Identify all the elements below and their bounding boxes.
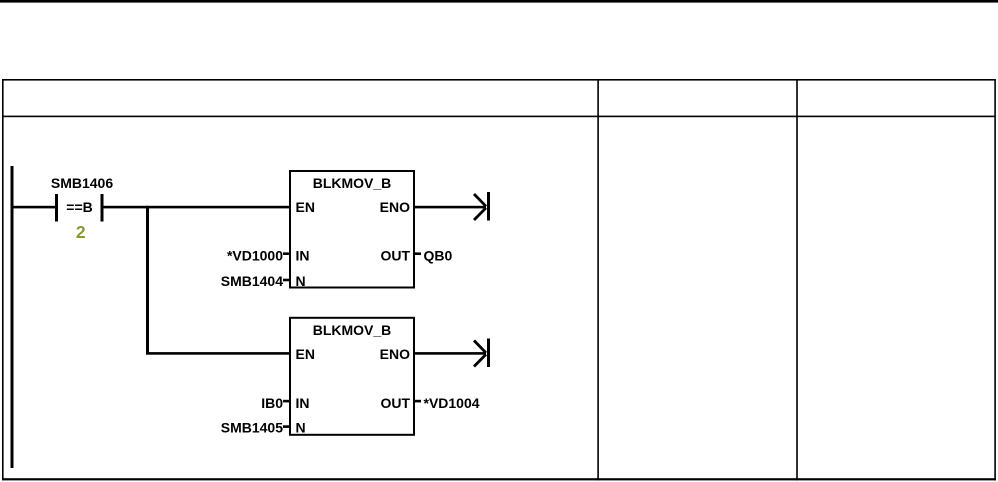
- table left border: [2, 79, 4, 480]
- svg-text:SMB1405: SMB1405: [221, 419, 283, 435]
- block U2 OUT pin tick: [414, 400, 421, 403]
- svg-text:N: N: [296, 419, 306, 435]
- svg-text:SMB1406: SMB1406: [51, 175, 113, 191]
- top page rule: [0, 0, 998, 3]
- wire: contact to block U1 EN: [104, 206, 291, 209]
- svg-text:EN: EN: [296, 199, 315, 215]
- op block U2 BLKMOV_B box: [290, 318, 414, 435]
- svg-text:IN: IN: [296, 395, 310, 411]
- block U2 IN pin tick: [283, 400, 290, 403]
- contact ==B left bar: [55, 194, 58, 222]
- svg-text:*VD1004: *VD1004: [424, 395, 480, 411]
- junction: branch drop at node: [146, 206, 149, 354]
- svg-text:==B: ==B: [66, 199, 92, 215]
- open line arrow 2: [474, 339, 490, 368]
- block U1 N pin tick: [283, 279, 290, 282]
- left power rail: [11, 166, 14, 468]
- svg-text:*VD1000: *VD1000: [227, 248, 283, 264]
- table column divider 1: [597, 79, 599, 480]
- svg-text:BLKMOV_B: BLKMOV_B: [313, 322, 392, 338]
- svg-text:IB0: IB0: [261, 395, 283, 411]
- table column divider 2: [796, 79, 798, 480]
- block U1 IN pin tick: [283, 252, 290, 255]
- svg-text:N: N: [296, 273, 306, 289]
- table header row top border: [2, 79, 996, 81]
- block U1 OUT pin tick: [414, 252, 421, 255]
- open line arrow 1: [474, 192, 490, 221]
- svg-text:ENO: ENO: [380, 346, 410, 362]
- svg-text:ENO: ENO: [380, 199, 410, 215]
- wire: U2 ENO to open arrow: [414, 352, 486, 355]
- svg-text:BLKMOV_B: BLKMOV_B: [313, 175, 392, 191]
- table bottom border: [2, 478, 996, 480]
- svg-text:EN: EN: [296, 346, 315, 362]
- wire: branch to block U2 EN: [146, 352, 290, 355]
- block U2 N pin tick: [283, 425, 290, 428]
- svg-text:2: 2: [76, 222, 86, 242]
- svg-text:IN: IN: [296, 248, 310, 264]
- svg-text:SMB1404: SMB1404: [221, 273, 283, 289]
- op block U1 BLKMOV_B box: [290, 171, 414, 288]
- contact ==B right bar: [101, 194, 104, 222]
- svg-text:QB0: QB0: [424, 248, 453, 264]
- table header row bottom border: [2, 116, 996, 118]
- svg-text:OUT: OUT: [380, 248, 410, 264]
- wire: rail to contact: [12, 206, 56, 209]
- wire: U1 ENO to open arrow: [414, 206, 486, 209]
- table right border: [994, 79, 996, 480]
- svg-text:OUT: OUT: [380, 395, 410, 411]
